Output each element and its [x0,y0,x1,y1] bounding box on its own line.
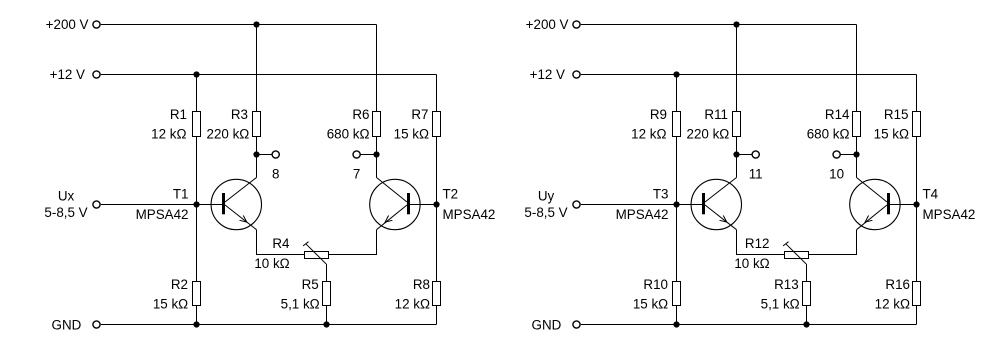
resistor R7 body [433,112,441,137]
svg-text:12 kΩ: 12 kΩ [151,127,186,142]
trimmer R4 body [305,252,329,259]
wire T2 base [410,204,437,206]
svg-text:R9: R9 [650,107,667,122]
wire R9 bottom / T3 base node / R10 top [676,137,678,282]
svg-text:MPSA42: MPSA42 [136,207,189,222]
terminal +12 V (left) [93,71,100,78]
svg-text:T4: T4 [923,187,939,202]
svg-text:R3: R3 [231,107,248,122]
wire R14 top column [856,25,858,112]
wire R6 bottom to node 7 [376,137,378,155]
svg-text:R12: R12 [745,236,770,251]
svg-text:680 kΩ: 680 kΩ [807,127,850,142]
svg-text:15 kΩ: 15 kΩ [633,297,668,312]
svg-text:GND: GND [532,317,562,332]
svg-text:R16: R16 [885,277,910,292]
wire T3 collector vertical [736,155,738,178]
svg-text:R11: R11 [704,107,728,122]
resistor R10 body [673,282,681,306]
wire R12 wiper to R13 top [806,264,808,281]
wire Uy input [581,204,677,206]
svg-text:T1: T1 [173,187,189,202]
terminal node 11 (right) [752,151,759,158]
terminal GND (left) [93,321,100,328]
svg-text:12 kΩ: 12 kΩ [631,127,666,142]
node 10 junction [853,151,859,157]
wire T4 base [890,204,917,206]
terminal +200 V (right) [573,21,580,28]
svg-text:R7: R7 [411,107,428,122]
transistor T3 [691,178,741,230]
terminal GND (right) [573,321,580,328]
wire R8 bottom GND corner [436,306,438,325]
terminal +12 V (right) [573,71,580,78]
wire R1 top column [196,75,198,112]
svg-text:680 kΩ: 680 kΩ [327,127,370,142]
wire R7 top column [436,75,438,112]
wire +200 V rail (left) [101,24,377,26]
svg-text:T2: T2 [443,187,459,202]
svg-text:7: 7 [353,167,360,182]
resistor R3 body [253,112,261,137]
transistor T4 [850,178,900,230]
svg-text:15 kΩ: 15 kΩ [153,297,188,312]
wire GND rail (left) [101,324,437,326]
resistor R2 body [193,282,201,306]
svg-text:220 kΩ: 220 kΩ [687,127,730,142]
svg-text:10 kΩ: 10 kΩ [254,256,289,271]
junction +12 V / R9 [673,71,679,77]
wire GND rail (right) [581,324,917,326]
transistor T1 [211,178,261,230]
wire R11 top column [736,25,738,112]
wire node 11 stub [737,154,752,156]
transistor T2 [370,178,420,230]
resistor R5 body [323,282,331,306]
resistor R13 body [803,282,811,306]
trimmer R4 wiper shaft [306,244,327,264]
svg-text:R5: R5 [302,277,319,292]
svg-text:12 kΩ: 12 kΩ [875,297,910,312]
trimmer R4 wiper crossbar [303,242,308,246]
trimmer R12 wiper crossbar [783,242,788,246]
svg-text:R13: R13 [774,277,799,292]
junction GND / R10 [673,321,679,327]
wire R14 bottom to node 10 [856,137,858,155]
wire +12 V rail (left) [101,74,437,76]
svg-text:11: 11 [749,167,763,182]
wire T1 collector vertical [256,155,258,178]
junction +200 V / R11 [733,21,739,27]
svg-text:15 kΩ: 15 kΩ [874,127,909,142]
terminal node 8 (left) [272,151,279,158]
svg-text:+12 V: +12 V [50,67,85,82]
wire node 8 stub [257,154,272,156]
resistor R15 body [913,112,921,137]
wire R2 bottom [196,306,198,325]
terminal Uy (right) [573,201,580,208]
svg-text:5,1 kΩ: 5,1 kΩ [761,297,800,312]
wire R6 top column [376,25,378,112]
svg-text:10 kΩ: 10 kΩ [734,256,769,271]
wire R3 bottom to node 8 [256,137,258,155]
junction GND / R5 [323,321,329,327]
junction +12 V / R1 [193,71,199,77]
junction T1 base [193,201,199,207]
node 7 junction [373,151,379,157]
wire +200 V rail (right) [581,24,857,26]
wire T4 collector vertical [856,155,858,178]
terminal +200 V (left) [93,21,100,28]
svg-text:5,1 kΩ: 5,1 kΩ [281,297,320,312]
resistor R11 body [733,112,741,137]
svg-text:5-8,5 V: 5-8,5 V [524,205,567,220]
svg-text:10: 10 [829,167,844,182]
wire R9 top column [676,75,678,112]
svg-text:R2: R2 [171,277,188,292]
resistor R16 body [913,282,921,306]
terminal node 7 (left) [353,151,360,158]
resistor R8 body [433,282,441,306]
svg-text:12 kΩ: 12 kΩ [395,297,430,312]
wire R15 bottom / T4 base node / R16 top [916,137,918,282]
junction T2 base [433,201,439,207]
wire T1 base [197,204,223,206]
svg-text:R6: R6 [352,107,369,122]
wire node 7 stub [360,154,376,156]
svg-text:T3: T3 [653,187,669,202]
node 8 junction [253,151,259,157]
wire R10 bottom [676,306,678,325]
svg-text:R15: R15 [884,107,909,122]
wire T1 emitter to R4 left [257,230,305,255]
wire R16 bottom GND corner [916,306,918,325]
junction GND / R2 [193,321,199,327]
svg-text:R4: R4 [272,236,290,251]
wire R3 top column [256,25,258,112]
svg-text:+200 V: +200 V [526,17,569,32]
svg-text:Ux: Ux [58,188,75,203]
resistor R6 body [373,112,381,137]
svg-text:GND: GND [52,317,82,332]
svg-text:R10: R10 [643,277,668,292]
junction +200 V / R3 [253,21,259,27]
terminal node 10 (right) [833,151,840,158]
svg-text:MPSA42: MPSA42 [443,207,496,222]
wire R4 wiper to R5 top [326,264,328,281]
resistor R9 body [673,112,681,137]
trimmer R12 wiper shaft [786,244,807,264]
wire R11 bottom to node 11 [736,137,738,155]
wire T3 base [677,204,703,206]
junction T3 base [673,201,679,207]
wire R5 bottom [326,306,328,325]
svg-text:Uy: Uy [538,188,555,203]
wire R4 right to T2 emitter [329,230,377,255]
svg-text:R1: R1 [170,107,187,122]
wire R1 bottom / T1 base node / R2 top [196,137,198,282]
wire node 10 stub [840,154,856,156]
wire R7 bottom / T2 base node / R8 top [436,137,438,282]
svg-text:220 kΩ: 220 kΩ [207,127,250,142]
svg-text:+200 V: +200 V [46,17,89,32]
resistor R1 body [193,112,201,137]
junction T4 base [913,201,919,207]
node 11 junction [733,151,739,157]
svg-text:R14: R14 [825,107,850,122]
junction GND / R13 [803,321,809,327]
terminal Ux (left) [93,201,100,208]
wire Ux input [101,204,197,206]
svg-text:MPSA42: MPSA42 [616,207,669,222]
wire T2 collector vertical [376,155,378,178]
svg-text:MPSA42: MPSA42 [923,207,976,222]
wire T3 emitter to R12 left [737,230,785,255]
resistor R14 body [853,112,861,137]
svg-text:8: 8 [272,167,279,182]
wire R12 right to T4 emitter [809,230,857,255]
wire R15 top column [916,75,918,112]
wire R13 bottom [806,306,808,325]
trimmer R12 body [785,252,809,259]
svg-text:R8: R8 [413,277,430,292]
svg-text:15 kΩ: 15 kΩ [394,127,429,142]
svg-text:5-8,5 V: 5-8,5 V [44,205,87,220]
wire +12 V rail (right) [581,74,917,76]
svg-text:+12 V: +12 V [530,67,565,82]
